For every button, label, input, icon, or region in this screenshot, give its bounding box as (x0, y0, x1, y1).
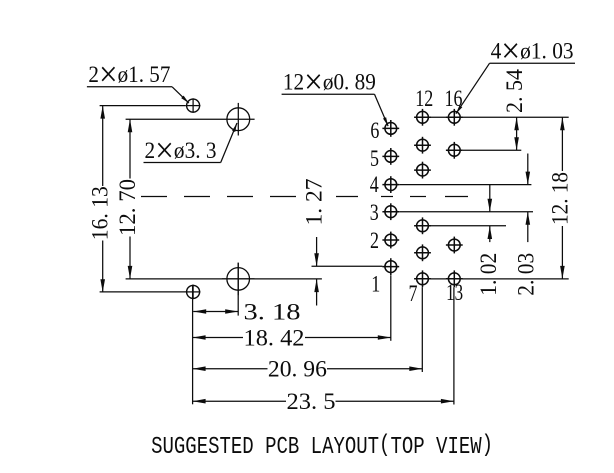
svg-text:6: 6 (370, 118, 379, 143)
svg-text:16: 16 (445, 86, 463, 111)
svg-text:7: 7 (409, 281, 418, 306)
svg-text:13: 13 (446, 280, 463, 305)
svg-text:12. 70: 12. 70 (115, 179, 140, 236)
svg-text:1. 27: 1. 27 (301, 179, 326, 226)
svg-text:2×ø1. 57: 2×ø1. 57 (88, 54, 170, 94)
svg-text:16. 13: 16. 13 (88, 186, 113, 240)
svg-text:2. 03: 2. 03 (514, 253, 539, 296)
svg-text:2: 2 (370, 228, 379, 253)
svg-text:4: 4 (370, 172, 379, 197)
svg-text:12: 12 (415, 86, 433, 111)
svg-text:12×ø0. 89: 12×ø0. 89 (283, 61, 376, 101)
svg-text:12. 18: 12. 18 (548, 172, 573, 225)
svg-text:SUGGESTED PCB LAYOUT(TOP VIEW): SUGGESTED PCB LAYOUT(TOP VIEW) (151, 431, 493, 461)
svg-text:3: 3 (370, 200, 379, 225)
svg-text:1. 02: 1. 02 (476, 253, 501, 296)
svg-text:2. 54: 2. 54 (502, 69, 527, 113)
svg-text:23. 5: 23. 5 (287, 389, 336, 414)
svg-text:4×ø1. 03: 4×ø1. 03 (491, 31, 574, 71)
svg-text:18. 42: 18. 42 (244, 326, 305, 351)
svg-text:5: 5 (370, 146, 379, 171)
svg-text:3. 18: 3. 18 (244, 299, 301, 324)
svg-text:1: 1 (371, 272, 380, 297)
svg-text:20. 96: 20. 96 (268, 357, 327, 382)
svg-text:2×ø3. 3: 2×ø3. 3 (145, 130, 217, 170)
